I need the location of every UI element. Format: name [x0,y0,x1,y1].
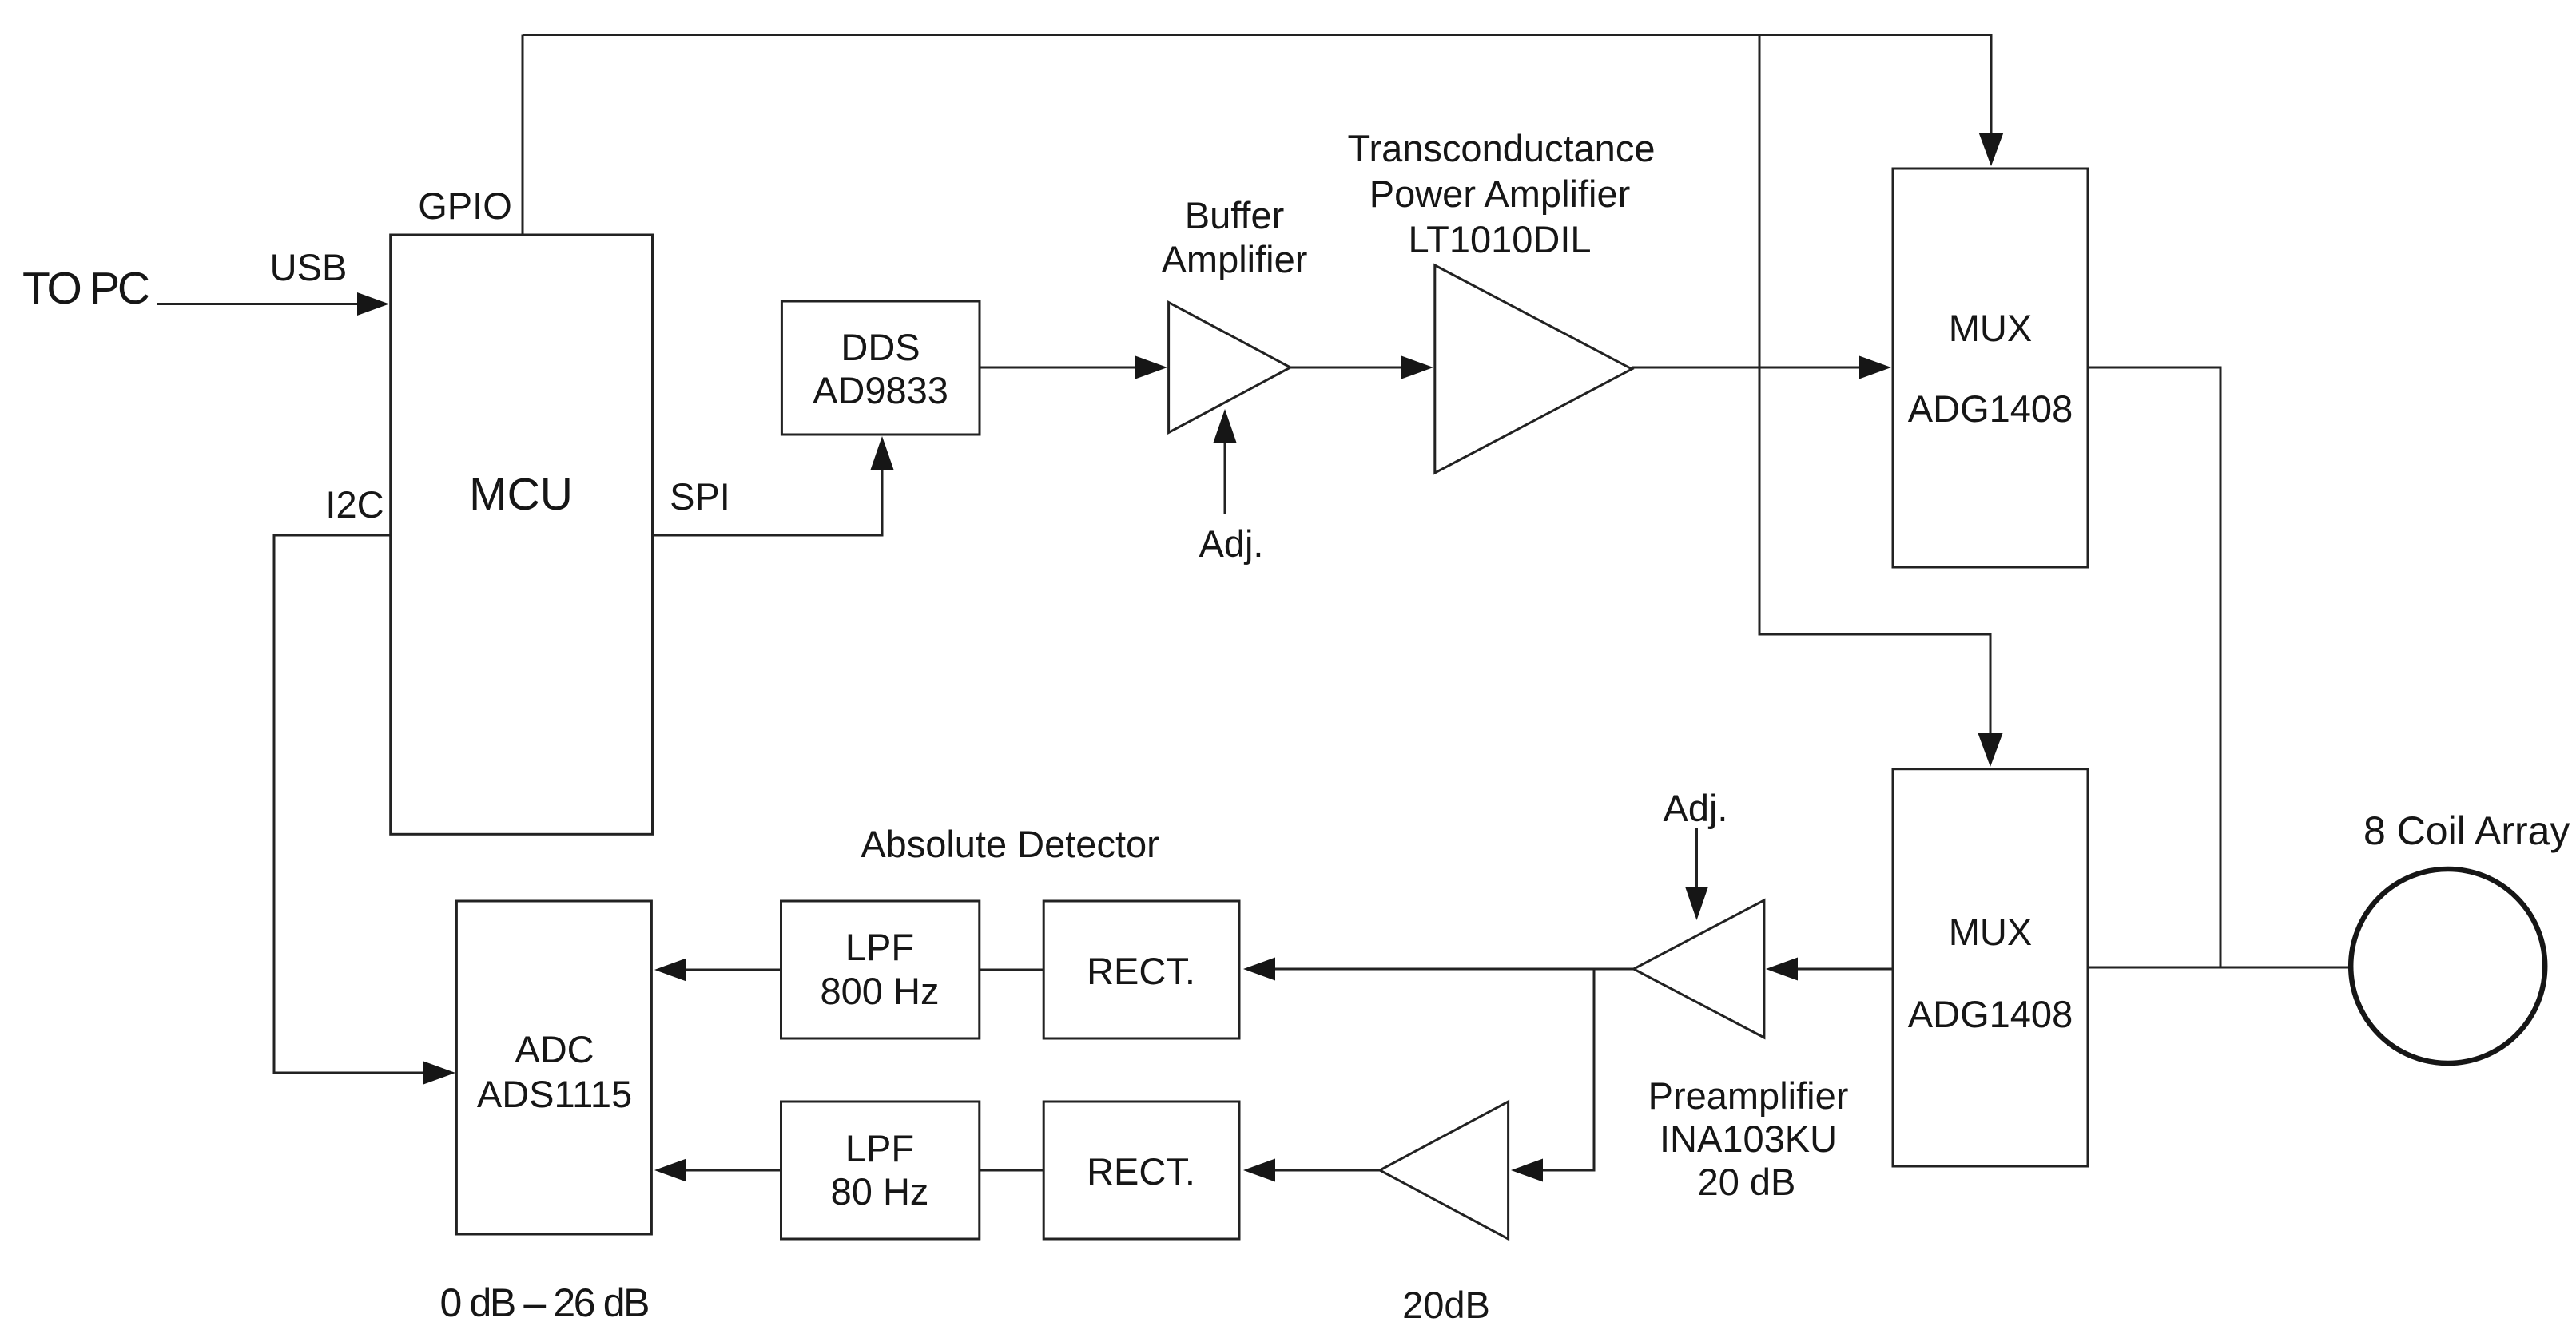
svg-text:Preamplifier: Preamplifier [1648,1074,1849,1117]
svg-text:MUX: MUX [1949,911,2032,953]
svg-text:0 dB – 26 dB: 0 dB – 26 dB [440,1280,650,1325]
svg-text:Buffer: Buffer [1185,194,1285,236]
arrowhead into 20dB amplifier [1511,1159,1543,1182]
wire Adj into preamplifier [1695,828,1698,890]
wire RECT1 to LPF1 [980,969,1044,971]
svg-text:ADG1408: ADG1408 [1908,387,2073,430]
RECT2 block [1044,1102,1239,1239]
wire drop to upper MUX [1990,35,1993,138]
wire coil array net [2088,967,2351,969]
wire SPI vertical to DDS [881,467,884,537]
svg-text:TO PC: TO PC [22,263,150,314]
svg-text:800 Hz: 800 Hz [821,970,940,1012]
svg-text:LT1010DIL: LT1010DIL [1408,218,1591,260]
wire MUX1 output horizontal [2088,367,2222,369]
MUX ADG1408 lower block [1893,769,2088,1166]
wire RECT2 to LPF2 [980,1169,1044,1172]
arrowhead into preamplifier [1766,958,1798,981]
wire I2C into ADC [274,1072,427,1074]
arrowhead into MUX2 top [1978,733,2003,767]
wire SPI horizontal from MCU [653,534,883,537]
wire LPF1 to ADC [686,969,781,971]
arrowhead LPF1 into ADC [654,959,686,982]
arrowhead into power amplifier [1401,356,1433,379]
wire branch down from preamp output [1593,969,1596,1172]
buffer amplifier triangle [1169,303,1290,433]
svg-text:USB: USB [270,246,348,288]
wire MUX1 output vertical to coil net [2220,367,2222,967]
svg-text:Adj.: Adj. [1664,787,1728,829]
wire MUX2 to preamplifier [1798,968,1893,971]
MUX ADG1408 upper block [1893,169,2088,567]
wire DDS to buffer amplifier [980,367,1139,369]
svg-text:20 dB: 20 dB [1698,1161,1796,1203]
svg-text:MUX: MUX [1949,307,2032,349]
wire branch drop to lower MUX [1990,634,1992,736]
wire buffer to power amplifier [1290,367,1405,369]
arrowhead into MUX1 top [1979,133,2004,166]
wire branch vertical x2202 [1759,34,1761,636]
svg-text:Amplifier: Amplifier [1162,238,1308,280]
svg-text:SPI: SPI [670,475,730,518]
wire top bus GPIO to MUX feeds [523,34,1993,36]
wire preamplifier output [1275,968,1634,971]
arrowhead I2C into ADC [423,1062,455,1085]
svg-text:DDS: DDS [841,326,920,368]
arrowhead USB into MCU [357,292,389,316]
DDS AD9833 block [781,301,980,435]
svg-text:Absolute Detector: Absolute Detector [861,823,1159,865]
wire branch to 20dB amplifier [1543,1169,1594,1172]
svg-text:GPIO: GPIO [418,185,512,227]
RECT1 block [1044,901,1239,1038]
arrowhead Adj into preamplifier [1685,887,1708,920]
svg-text:ADG1408: ADG1408 [1908,993,2073,1035]
8 coil array circle [2351,869,2545,1063]
wire GPIO drop to MCU top [522,35,524,236]
svg-text:ADC: ADC [515,1028,594,1070]
wire power amplifier to MUX [1632,367,1862,369]
transconductance power amplifier triangle [1435,265,1632,473]
svg-text:MCU: MCU [469,469,573,520]
arrowhead into MUX1 left [1859,356,1891,379]
wire 20dB amplifier output [1275,1169,1380,1172]
svg-text:20dB: 20dB [1402,1284,1490,1326]
LPF 800 Hz block [781,901,980,1038]
MCU block [391,235,653,834]
svg-text:RECT.: RECT. [1087,950,1195,992]
preamplifier triangle INA103KU [1634,900,1764,1038]
arrowhead into RECT2 [1243,1159,1275,1182]
ADC ADS1115 block [456,901,651,1234]
wire I2C horizontal from MCU [274,534,391,537]
wire I2C vertical [273,534,276,1074]
svg-text:Power Amplifier: Power Amplifier [1369,173,1631,215]
svg-text:I2C: I2C [325,483,384,526]
arrowhead Adj into buffer amplifier [1214,409,1237,443]
arrowhead LPF2 into ADC [654,1159,686,1182]
svg-text:LPF: LPF [845,1127,914,1169]
svg-text:RECT.: RECT. [1087,1150,1195,1193]
arrowhead into buffer amplifier [1135,356,1167,379]
wire branch horizontal y794 [1759,633,1992,636]
20dB amplifier triangle [1380,1102,1509,1239]
svg-text:AD9833: AD9833 [813,369,948,411]
LPF 80 Hz block [781,1102,980,1239]
svg-text:8 Coil Array: 8 Coil Array [2363,808,2570,853]
svg-text:Adj.: Adj. [1199,522,1264,565]
svg-text:LPF: LPF [845,926,914,968]
wire LPF2 to ADC [686,1169,781,1172]
svg-text:ADS1115: ADS1115 [477,1073,632,1115]
svg-text:Transconductance: Transconductance [1348,127,1656,169]
svg-text:80 Hz: 80 Hz [831,1170,929,1213]
wire Adj into buffer amplifier [1224,439,1226,514]
arrowhead into RECT1 [1243,958,1275,981]
wire USB from TO PC [157,303,361,305]
arrowhead SPI into DDS [871,436,894,470]
svg-text:INA103KU: INA103KU [1660,1118,1837,1160]
